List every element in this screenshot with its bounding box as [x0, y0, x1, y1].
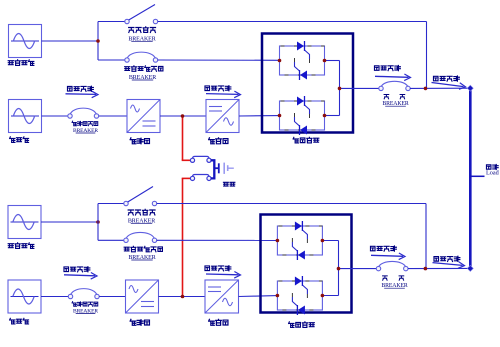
wire lower loop to output node lower: [322, 295, 338, 297]
wire output to bus lower: [408, 267, 470, 269]
label BREAKER rectifier input lower: [73, 308, 98, 314]
wire branch vertical top unit: [97, 22, 99, 61]
label maintenance bypass lower: [128, 209, 155, 215]
label BREAKER bypass top: [128, 37, 155, 43]
node lower loop left (lower): [276, 294, 280, 298]
rectifier box (top): [127, 100, 160, 133]
wire output to bus top: [410, 87, 470, 89]
wire to maintenance bypass switch: [98, 21, 127, 23]
wire battery to lower unit right (red): [182, 177, 190, 179]
svg-text:Load: Load: [486, 170, 500, 177]
breaker: rectifier input (lower): [68, 289, 99, 299]
label static switch lower: [289, 322, 315, 328]
arrow supply path 2 top: [206, 91, 241, 98]
label fu-zai (load): [486, 164, 498, 169]
AC source: main power 1 (top): [9, 100, 42, 133]
wire upper loop to output node lower: [322, 240, 338, 242]
label BREAKER rectifier input top: [73, 128, 98, 134]
node bypass/output junction (lower): [424, 267, 428, 271]
thyristor pair loop lower (lower static switch): [277, 276, 322, 315]
arrow supply path 3 lower: [371, 253, 405, 260]
wire vertical output join top: [339, 61, 341, 116]
label BREAKER output top: [382, 101, 409, 107]
node battery tap top: [181, 114, 185, 118]
wire lower loop to output node top: [325, 115, 340, 117]
thyristor pair loop upper (lower static switch): [277, 221, 322, 260]
node bypass/output junction (top): [424, 87, 428, 91]
arrow supply path 4 top: [432, 83, 466, 90]
node output join (top): [338, 87, 342, 91]
label zheng-liu-qi (rectifier) top: [130, 138, 149, 144]
arrow supply path 4 lower: [433, 262, 465, 269]
label supply path 3 lower: [370, 246, 396, 251]
breaker: battery top: [190, 156, 211, 162]
label shu (output char1) lower: [383, 276, 388, 280]
node upper loop left (lower): [276, 239, 280, 243]
label BREAKER backup input top: [129, 75, 156, 81]
label supply path 3 top: [374, 65, 400, 70]
AC source: backup power 1 (top): [9, 25, 42, 58]
label rectifier input lower: [72, 302, 98, 307]
arrow supply path 1 lower: [64, 273, 97, 280]
label wei-hu-pang-lu (maintenance bypass) top: [129, 27, 156, 33]
inverter box (lower): [205, 280, 239, 313]
wire battery feed right (red): [182, 159, 190, 161]
label zhu-dian-yuan (main source) top: [10, 137, 29, 143]
wire battery to lower unit down (red): [182, 178, 184, 296]
arrow supply path 3 top: [375, 74, 411, 81]
label rectifier lower: [130, 319, 149, 325]
breaker: rectifier input (top): [68, 108, 99, 118]
wire battery feed down (red): [182, 116, 184, 160]
node backup branch (top): [96, 39, 100, 43]
label backup source lower: [8, 243, 34, 249]
wire branch vertical lower unit: [97, 204, 99, 241]
wire backup input to static switch top: [158, 59, 280, 61]
label supply path 4 top: [433, 76, 459, 81]
wire breaker to rectifier top: [99, 115, 127, 117]
wire upper loop to output node top: [325, 60, 340, 62]
wire bypass line lower: [157, 203, 426, 205]
wire backup source 2 to branch node: [41, 221, 98, 223]
wire inverter to static switch lower: [239, 295, 278, 298]
wire rectifier to inverter lower: [159, 296, 206, 298]
label rectifier input top: [72, 121, 98, 126]
node backup branch (lower): [96, 220, 100, 224]
node upper loop right (lower): [321, 239, 325, 243]
wire static switch output top: [340, 87, 382, 89]
switch: maintenance bypass breaker (top, open): [125, 5, 158, 24]
wire to backup input breaker top: [98, 59, 127, 61]
label shu (output char1) top: [384, 94, 389, 98]
thyristor pair loop lower (top static switch): [280, 96, 325, 135]
inverter box (top): [206, 100, 239, 133]
label BREAKER bypass lower: [128, 219, 155, 225]
node upper loop left (top): [278, 59, 282, 63]
arrow supply path 1 top: [66, 91, 99, 98]
rectifier box (lower): [126, 280, 159, 313]
switch: maintenance bypass breaker (lower, open): [124, 187, 157, 206]
wire backup source 1 to branch node: [42, 40, 99, 42]
label main source lower: [10, 318, 29, 324]
wire rectifier to inverter top: [160, 115, 206, 117]
wire to backup input breaker lower: [98, 239, 126, 241]
node battery tap lower: [181, 295, 185, 299]
static switch outer box (lower): [261, 215, 352, 313]
node bus bottom junction (diamond): [467, 265, 473, 271]
label supply path 4 lower: [434, 256, 460, 261]
label dian-chi (battery): [223, 182, 234, 186]
wire main source to rectifier breaker top: [42, 115, 71, 117]
thyristor pair loop upper (top static switch): [280, 41, 325, 80]
breaker: output (lower): [376, 261, 408, 270]
label chu (output char2) top: [400, 94, 405, 98]
label ni-bian-qi (inverter) top: [209, 138, 228, 144]
label jing-tai-kai-guan (static switch) top: [293, 137, 319, 143]
label chu (output char2) lower: [399, 276, 404, 280]
battery bus and symbol: [211, 160, 234, 178]
wire load bus vertical: [469, 88, 472, 268]
label backup power input top: [125, 66, 163, 71]
label supply path 1 lower: [64, 267, 90, 272]
wire breaker to rectifier lower: [99, 296, 125, 298]
node lower loop right (top): [323, 114, 327, 118]
wire main source to rectifier breaker lower: [41, 296, 71, 298]
breaker: output (top): [379, 81, 410, 90]
wire inverter to static switch top: [239, 115, 280, 117]
label supply path 2 top: [205, 86, 231, 91]
wire vertical output join lower: [338, 241, 340, 296]
wire to maintenance bypass switch lower: [98, 203, 126, 205]
label gong-dian-lu-jing (supply path) 1 top: [67, 86, 93, 91]
arrow supply path 2 lower: [206, 272, 241, 279]
breaker: battery bottom: [190, 175, 211, 181]
breaker: backup power input (lower): [124, 232, 157, 242]
wire load stub: [470, 175, 484, 177]
label inverter lower: [209, 319, 228, 325]
node lower loop left (top): [278, 114, 282, 118]
label supply path 2 lower: [205, 266, 231, 271]
AC source: backup power 2 (lower): [8, 206, 41, 239]
label backup power input lower: [124, 246, 162, 251]
static switch outer box (top): [262, 34, 353, 133]
node output join (lower): [337, 267, 341, 271]
node lower loop right (lower): [321, 294, 325, 298]
wire static switch output lower: [339, 268, 379, 270]
node bus top junction (diamond): [467, 85, 473, 91]
wire bypass down to output junction top: [426, 22, 428, 89]
label bei-yong-dian-yuan (backup source) top: [8, 60, 34, 66]
wire bypass line top: [158, 21, 427, 23]
breaker: backup power input (top): [125, 52, 158, 62]
AC source: main power 2 (lower): [8, 280, 41, 313]
node upper loop right (top): [323, 59, 327, 63]
label BREAKER backup input lower: [128, 255, 155, 261]
wire backup input to static switch lower: [157, 239, 278, 241]
wire bypass down to output junction lower: [425, 204, 427, 269]
label BREAKER output lower: [381, 283, 408, 289]
